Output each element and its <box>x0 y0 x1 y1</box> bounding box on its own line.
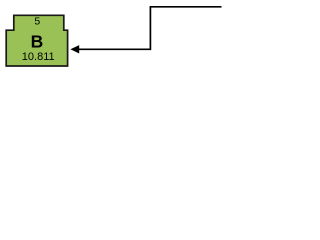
svg-text:5: 5 <box>34 16 40 28</box>
arrow wire <box>79 7 222 50</box>
arrowhead <box>70 45 79 53</box>
svg-text:10.811: 10.811 <box>22 51 55 63</box>
svg-text:B: B <box>31 32 44 52</box>
element tile B (boron) <box>6 15 67 66</box>
